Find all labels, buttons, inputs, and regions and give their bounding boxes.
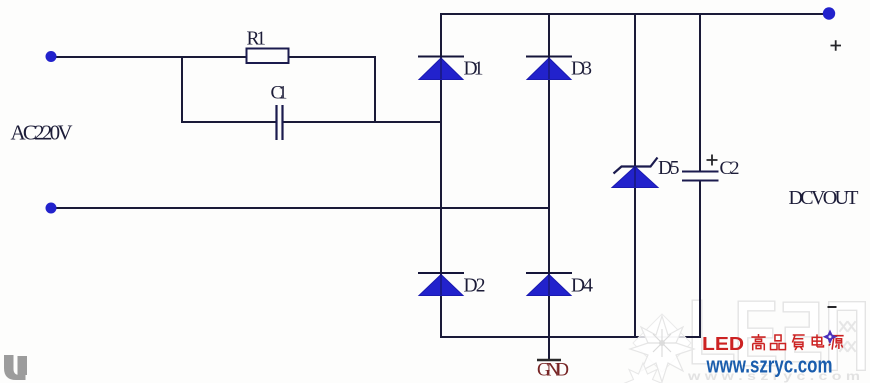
output minus sign	[828, 306, 837, 308]
wire streak through D3	[548, 58, 550, 79]
watermark star burst	[623, 314, 695, 383]
diode D4	[526, 273, 572, 296]
watermark logo u bottom-left	[4, 355, 27, 380]
ground symbol	[537, 359, 561, 361]
node AC input terminal 1	[46, 51, 57, 62]
wire C1 bottom path left	[182, 121, 276, 123]
wire C2 branch lower	[699, 180, 701, 338]
hanzi pin	[771, 335, 786, 350]
wire C1 bottom path right	[284, 121, 443, 123]
hanzi zhi	[792, 335, 804, 350]
watermark ghost group	[687, 305, 861, 383]
wire bridge branch D3-D4	[548, 13, 550, 338]
capacitor C1 plates	[277, 105, 283, 140]
wire bridge branch D1-D2	[440, 13, 442, 338]
wire top rail	[441, 13, 829, 15]
hanzi gao	[751, 334, 765, 350]
diode D1	[418, 57, 464, 80]
ghost letter wang box	[833, 306, 861, 366]
zener diode D5	[612, 158, 658, 188]
ghost letter L	[697, 305, 729, 359]
watermark purple sparkle	[823, 330, 838, 345]
node DC output terminal	[823, 7, 835, 19]
diode D3	[526, 57, 572, 80]
hanzi dian	[812, 334, 823, 347]
wire RC left vertical	[181, 56, 183, 123]
wire streak through D2	[440, 274, 442, 295]
output plus sign	[831, 40, 842, 50]
wire AC1 top	[51, 56, 375, 58]
wire RC right vertical	[374, 56, 376, 123]
wire streak through D4	[548, 274, 550, 295]
wire C2 branch upper	[699, 13, 701, 171]
wire D5 branch	[634, 13, 636, 338]
wire GND stub	[548, 337, 550, 359]
wire streak through D5	[634, 167, 636, 187]
watermark red text: LED 高品质 电源	[702, 334, 844, 354]
svg-text:LED: LED	[702, 334, 744, 354]
capacitor C2 polarized	[682, 155, 719, 181]
resistor R1	[247, 49, 289, 64]
diode D2	[418, 273, 464, 296]
wire streak through D1	[440, 58, 442, 79]
wire bottom rail	[441, 336, 700, 338]
ghost letter 2-shape	[788, 307, 816, 357]
hanzi yuan	[829, 336, 844, 350]
ghost letter E	[743, 306, 771, 361]
svg-text:www.szryc.com: www.szryc.com	[706, 353, 833, 378]
node AC input terminal 2	[46, 203, 57, 214]
wire AC2	[51, 207, 550, 209]
